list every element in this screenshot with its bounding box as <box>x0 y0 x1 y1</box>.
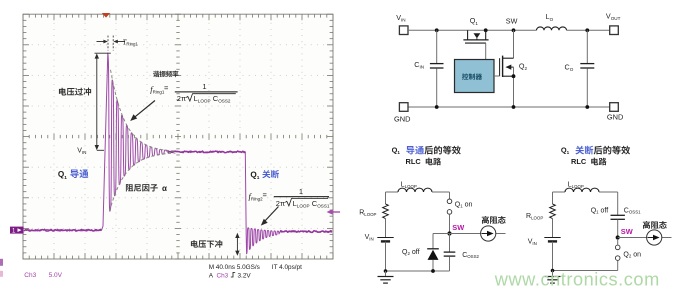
svg-text:3.2V: 3.2V <box>238 273 252 280</box>
inductor LO <box>537 27 567 30</box>
node: Q1 source junction <box>484 28 488 32</box>
svg-text:Q1: Q1 <box>392 146 401 156</box>
wire top rail VIN to inductor <box>408 29 537 31</box>
oscilloscope screen frame <box>23 14 333 259</box>
controller block U1 <box>455 60 495 93</box>
svg-text:2π: 2π <box>177 94 186 103</box>
wire Q1 gate to controller <box>485 43 487 59</box>
svg-text:VOUT: VOUT <box>606 12 621 22</box>
ground symbol <box>385 271 387 276</box>
svg-text:GND: GND <box>607 112 623 121</box>
svg-text:M 40.0ns 5.0GS/s: M 40.0ns 5.0GS/s <box>209 264 260 271</box>
RLC circuit: top wire + inductor L_LOOP <box>386 191 399 193</box>
svg-text:5.0V: 5.0V <box>49 272 63 279</box>
wire bottom <box>386 270 450 272</box>
svg-text:Q2: Q2 <box>519 62 528 72</box>
node: diode anode junction <box>431 269 435 273</box>
wire inductor to VOUT <box>567 29 610 31</box>
switch Q2 on (circuit 2) <box>615 245 620 250</box>
diode (Q2 body diode) <box>432 234 434 249</box>
svg-text:COSS2: COSS2 <box>462 252 479 259</box>
high-impedance probe symbol (circle with arrow) <box>481 226 496 241</box>
svg-text:2π: 2π <box>276 199 285 208</box>
svg-text:Ch3: Ch3 <box>217 273 229 280</box>
resistor R_LOOP <box>385 192 387 204</box>
svg-text:1: 1 <box>299 187 303 196</box>
svg-text:www.cntronics.com: www.cntronics.com <box>494 269 660 289</box>
terminal GND (left) <box>399 103 408 112</box>
svg-text:LO: LO <box>546 12 554 22</box>
svg-text:LLOOP: LLOOP <box>568 181 584 188</box>
svg-text:Q2 off: Q2 off <box>402 249 420 256</box>
label: 电压下冲 (voltage undershoot) <box>191 240 222 248</box>
node: CO junction (bottom) <box>585 105 589 109</box>
svg-text:CO: CO <box>565 62 574 72</box>
annotation: voltage overshoot double arrow <box>96 56 98 148</box>
label: 控制器 (controller) <box>462 73 482 79</box>
svg-text:Q1: Q1 <box>561 146 570 156</box>
svg-text:SW: SW <box>621 227 633 236</box>
svg-text:IT 4.0ps/pt: IT 4.0ps/pt <box>272 264 302 271</box>
svg-text:COSS1: COSS1 <box>624 207 641 214</box>
svg-text:RLC: RLC <box>571 157 587 166</box>
ground symbol <box>552 271 554 277</box>
node: CIN junction (bottom) <box>435 105 439 109</box>
svg-text:A: A <box>209 273 214 280</box>
annotation: arrow from formula2 to undershoot ring <box>264 207 279 223</box>
node: Q2 source junction (bottom) <box>512 105 516 109</box>
annotation: voltage undershoot double arrow <box>236 236 238 253</box>
svg-text:SW: SW <box>506 17 518 26</box>
annotation: T_Ring1 dashed period markers <box>107 36 109 51</box>
terminal VIN <box>399 26 408 35</box>
svg-text:Q1 off: Q1 off <box>591 207 609 214</box>
svg-text:Ch3: Ch3 <box>24 272 36 279</box>
node SW (circuit 1) <box>447 231 451 235</box>
node: CO junction (top) <box>585 28 589 32</box>
svg-text:VIN: VIN <box>528 239 537 246</box>
label: 阻尼因子 α (damping factor) <box>126 184 158 191</box>
node SW (circuit 2) <box>616 235 620 239</box>
svg-text:GND: GND <box>394 114 410 123</box>
damping envelope upper (dashed) <box>111 70 177 151</box>
svg-text:VIN: VIN <box>365 234 374 241</box>
node SW junction <box>512 28 516 32</box>
svg-text:=: = <box>164 84 169 93</box>
svg-text:VIN: VIN <box>396 13 405 23</box>
annotation: T_Ring1 arrows <box>97 41 106 43</box>
label: VIN level tick <box>97 149 104 151</box>
svg-text:Q1 on: Q1 on <box>455 201 473 208</box>
trigger level marker (purple arrow, right edge) <box>327 209 341 214</box>
wire bottom <box>553 270 618 272</box>
svg-text:RLC: RLC <box>406 157 422 166</box>
label: 高阻态 (circuit 2) <box>643 221 667 229</box>
wire SW node horizontal (circuit 2) <box>618 237 647 239</box>
wire SW node horizontal <box>433 233 481 235</box>
trigger position marker (orange triangle, top) <box>102 13 110 18</box>
battery VIN <box>377 237 393 239</box>
svg-text:1: 1 <box>202 82 206 91</box>
capacitor C_OSS2 <box>449 234 451 252</box>
terminal GND (right) <box>610 103 619 112</box>
svg-text:RLOOP: RLOOP <box>526 213 543 220</box>
label: 谐振频率 (resonant frequency) <box>153 71 178 77</box>
node: Q2 source/body junction <box>512 74 516 78</box>
RLC circuit: top wire + inductor L_LOOP <box>553 191 566 193</box>
terminal VOUT <box>610 26 619 35</box>
svg-text:SW: SW <box>452 223 464 232</box>
transistor Q1 (high-side PMOS) <box>463 30 488 43</box>
svg-text:LLOOP: LLOOP <box>401 181 417 188</box>
svg-text:RLOOP: RLOOP <box>359 210 376 217</box>
transistor Q2 (low-side NMOS) <box>500 30 514 107</box>
resistor R_LOOP <box>552 192 554 204</box>
left edge channel icon slivers <box>0 259 3 266</box>
label: 电压过冲 (voltage overshoot) <box>59 88 91 96</box>
svg-text:α: α <box>162 184 167 193</box>
svg-text:Q1: Q1 <box>470 16 479 26</box>
svg-text:CIN: CIN <box>414 60 424 70</box>
annotation: arrow from formula to ring envelope <box>133 101 155 119</box>
label: 高阻态 (high impedance) <box>482 216 506 224</box>
high-impedance probe symbol (circuit 2) <box>647 230 662 245</box>
damping envelope lower (dashed) <box>110 153 176 211</box>
capacitor C_OSS1 (Q1 off) <box>617 192 619 215</box>
wire Q2 gate to controller <box>494 75 500 77</box>
waveform trace Ch3 (SW node voltage) <box>24 53 332 254</box>
capacitor CIN <box>436 30 438 63</box>
channel 1 position marker (left edge) <box>10 227 24 235</box>
switch Q1 on (open-circle switch) <box>449 192 451 199</box>
battery VIN <box>544 237 560 239</box>
svg-text:Q2 on: Q2 on <box>623 251 641 258</box>
svg-text:=: = <box>263 191 268 200</box>
wire bottom rail <box>408 106 610 108</box>
node: CIN junction (top) <box>435 28 439 32</box>
capacitor CO <box>586 30 588 63</box>
annotation: overshoot peak reference line <box>95 52 111 54</box>
